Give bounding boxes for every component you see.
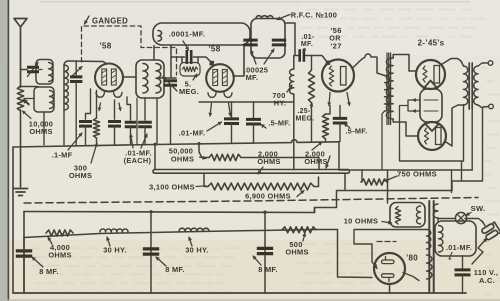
wire secondary down [63, 110, 65, 145]
resistor R6 50,000 OHMS [209, 154, 241, 160]
svg-text:6,900 OHMS: 6,900 OHMS [245, 192, 291, 201]
capacitor C7 .0001-MF grid [187, 50, 191, 64]
wire cathode rail to bleeder [339, 142, 472, 170]
wire bleeder bottom [315, 170, 453, 213]
filament arrows [413, 99, 421, 101]
svg-text:.25-: .25- [297, 108, 311, 115]
V3 cathode arrows [329, 93, 330, 106]
bottom rail [13, 292, 466, 294]
svg-text:OHMS: OHMS [304, 157, 327, 166]
ballast coil [416, 206, 420, 224]
speaker terminal upper [478, 63, 488, 66]
wire left return down [12, 147, 14, 293]
antenna trimmer box [36, 60, 53, 85]
V1 heater leads [96, 93, 104, 98]
T3 primary coil [385, 76, 390, 112]
resistor R8 750 OHMS [361, 170, 363, 182]
svg-text:OHMS: OHMS [69, 171, 92, 180]
capacitor C17 .01-MF [462, 256, 464, 268]
resistor R5 2000 ohms cathode [326, 106, 331, 115]
resistor R4 .25-MEG [311, 56, 313, 71]
resistor R2 300 OHMS [96, 91, 98, 119]
wire C2 top [160, 77, 176, 79]
T1 primary coil [49, 63, 53, 82]
resistor R7 6,900 OHMS chain [204, 173, 208, 186]
wire T3 sec to V4 grid [393, 55, 417, 72]
svg-text:.0001-MF.: .0001-MF. [169, 30, 205, 39]
svg-text:MEG.: MEG. [179, 87, 199, 96]
svg-text:MF.: MF. [246, 73, 259, 82]
T2 primary coil [143, 64, 148, 94]
power transformer core [428, 201, 430, 292]
ground [14, 189, 28, 196]
PT primary upper [433, 204, 438, 218]
primary box [435, 221, 476, 256]
wire pot top to coil can [21, 86, 39, 88]
winding stub dash [377, 241, 396, 243]
svg-text:2-’45’s: 2-’45’s [418, 39, 445, 48]
choke L2 30 HY [100, 229, 128, 232]
grid leak R3 5 MEG [180, 63, 200, 77]
svg-text:MF.: MF. [301, 41, 313, 48]
svg-text:(EACH): (EACH) [124, 156, 152, 165]
tap arrows divider [326, 156, 330, 168]
tube V4 '45 [416, 60, 445, 89]
wire riser 3 [264, 212, 266, 293]
wire rail C [153, 170, 348, 174]
svg-text:.1-MF: .1-MF [52, 151, 73, 160]
svg-text:.01-MF.: .01-MF. [179, 129, 206, 138]
wire cathode rail [13, 140, 339, 147]
svg-text:.5-MF.: .5-MF. [268, 119, 290, 128]
wire grid circuit V2 [154, 45, 212, 78]
svg-text:OHMS: OHMS [171, 155, 194, 164]
svg-text:’58: ’58 [208, 45, 220, 54]
svg-text:OHMS: OHMS [257, 157, 280, 166]
switch lamp SW [455, 212, 466, 223]
trimmer C10 .00025 [243, 40, 257, 45]
chassis box top [24, 208, 315, 213]
capacitor C6 .01-MF [144, 98, 146, 120]
wire riser 2 [150, 212, 152, 293]
svg-text:.5-MF.: .5-MF. [345, 127, 367, 136]
wire 50k branch [155, 144, 319, 170]
wire rail right end [345, 170, 349, 191]
wire V1 plate to T2 [123, 76, 136, 78]
capacitor C12 .01-MF coupling [300, 49, 304, 61]
ballast box 10 OHMS [390, 203, 425, 228]
svg-text:8 MF.: 8 MF. [165, 265, 185, 274]
PT HV winding lower [427, 255, 432, 279]
AC plug [481, 222, 500, 241]
ganged tuning dashed link [82, 26, 177, 75]
trimmer capacitor C1a [21, 69, 28, 71]
svg-text:8 MF.: 8 MF. [258, 265, 278, 274]
svg-text:’80: ’80 [406, 254, 418, 263]
T1 link coil [50, 91, 54, 109]
wire filter to rectifier [338, 230, 373, 278]
tube V6 '80 [374, 253, 405, 284]
wire T4 returns [400, 105, 483, 193]
wire V2 plate [233, 45, 244, 76]
trimmer C11 .00025 [272, 40, 286, 45]
resistor R10 500 OHMS [282, 227, 316, 233]
capacitor C4b bypass [114, 100, 116, 119]
variable capacitor C2 [164, 81, 177, 86]
wire grid line V1 [68, 61, 107, 64]
wire antenna lead down [20, 110, 22, 187]
svg-text:10 OHMS: 10 OHMS [344, 217, 379, 226]
svg-text:R.F.C. №100: R.F.C. №100 [291, 11, 337, 20]
svg-text:’27: ’27 [330, 42, 341, 51]
svg-text:OHMS: OHMS [285, 248, 308, 257]
T1 secondary coil [64, 61, 68, 110]
capacitor C15 8 MF [143, 249, 159, 254]
T4 right coil [474, 66, 478, 105]
svg-text:8 MF.: 8 MF. [39, 267, 59, 276]
svg-text:’58: ’58 [99, 42, 111, 51]
PT primary main [439, 226, 443, 253]
tube V5 '45 [418, 122, 446, 150]
choke L3 30 HY [179, 228, 209, 231]
V2 heater arrows [208, 93, 216, 98]
detector box [251, 19, 285, 59]
resistor R11 10 OHMS [395, 207, 400, 225]
svg-text:.01-: .01- [301, 34, 315, 41]
filament block [420, 89, 442, 122]
choke 700 HY [293, 56, 295, 70]
feedback coupling box [153, 23, 250, 45]
resistor R9 4,000 OHMS [46, 230, 73, 236]
svg-text:OHMS: OHMS [48, 251, 71, 260]
coupling coil L1 [158, 31, 162, 42]
output transformer T4 left coil [464, 66, 468, 105]
wire lamp leads [438, 219, 484, 223]
svg-text:OHMS: OHMS [29, 127, 52, 136]
wire rail B [155, 169, 349, 171]
capacitor C4 .1-MF [86, 89, 91, 119]
wire link coil down [43, 112, 45, 145]
transformer T3 core [386, 53, 388, 125]
tube V1 '58 [95, 64, 123, 92]
T3 secondary coil [386, 58, 393, 119]
RFC coil [256, 16, 273, 19]
tube V3 '56 [322, 60, 354, 92]
wire V4 plate to T4 [442, 59, 464, 67]
svg-text:30 HY.: 30 HY. [185, 246, 209, 255]
svg-text:.01-MF.: .01-MF. [446, 243, 472, 252]
svg-text:HY.: HY. [274, 99, 286, 108]
wire wiper tap [24, 100, 29, 105]
wire HV lead [354, 230, 427, 263]
speaker terminal lower [483, 107, 489, 109]
capacitor C9 .5-MF [253, 102, 255, 118]
wire detector grid [285, 23, 328, 63]
svg-text:30 HY.: 30 HY. [103, 246, 127, 255]
wire T3 sec to V5 grid [393, 119, 418, 136]
svg-text:GANGED: GANGED [92, 17, 128, 26]
capacitor C14 8 MF [16, 251, 32, 256]
wire V5 plate to T4 [445, 105, 464, 146]
wire HV lower lead [403, 273, 419, 281]
T4 core [468, 63, 470, 109]
AC cord [472, 239, 486, 264]
wire T3 primary return [382, 111, 385, 170]
T1 shield can lower [34, 87, 54, 112]
capacitor C16 8 MF [257, 248, 273, 253]
capacitor C13 .5-MF cathode [339, 106, 341, 117]
wire filament return [400, 100, 413, 150]
variable capacitor C1 [75, 62, 77, 77]
capacitor C8 .01-MF [231, 102, 233, 117]
wire rectifier output [389, 284, 391, 293]
PT HV winding upper [427, 230, 431, 250]
capacitor C5 .01-MF [127, 97, 131, 120]
dashed chassis line [24, 198, 478, 204]
transformer T2 shield can [136, 60, 164, 98]
svg-text:MEG.: MEG. [295, 116, 314, 123]
wire V3 plate to T3 [353, 54, 385, 76]
chassis box left [23, 212, 25, 294]
antenna [14, 19, 27, 88]
filter rail [24, 230, 338, 238]
potentiometer R1 10,000 OHMS [17, 86, 23, 111]
svg-text:A.C.: A.C. [479, 276, 495, 285]
svg-text:3,100 OHMS: 3,100 OHMS [149, 183, 195, 192]
tube V2 '58 [206, 64, 234, 92]
wire screen rail [199, 101, 294, 103]
T2 secondary coil [156, 64, 161, 94]
svg-text:750 OHMS: 750 OHMS [397, 170, 437, 179]
svg-text:SW.: SW. [471, 204, 486, 213]
